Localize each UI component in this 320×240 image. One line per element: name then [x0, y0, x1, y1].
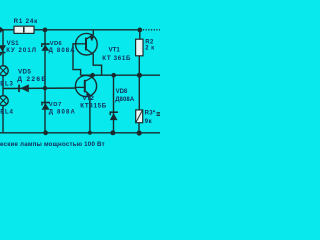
wire R2 bottom lead [138, 56, 140, 75]
svg-text:Д 226Б: Д 226Б [17, 76, 47, 83]
node junction top middle [43, 28, 48, 33]
svg-text:еские лампы мощностью 100 Вт: еские лампы мощностью 100 Вт [0, 141, 105, 148]
resistor R3 [136, 110, 143, 123]
transistor VT1 [76, 33, 98, 55]
svg-text:R1 24к: R1 24к [14, 18, 39, 25]
svg-text:R2: R2 [145, 39, 154, 45]
lamp EL3 [0, 66, 8, 76]
node junction VD5 wire [43, 86, 47, 90]
svg-text:КТ315Б: КТ315Б [80, 103, 107, 110]
svg-text:VS1: VS1 [7, 41, 20, 47]
wire R3 bottom lead [138, 123, 140, 133]
wire middle horizontal bus [81, 74, 160, 76]
node input arrow left [0, 27, 4, 33]
wire R3 top lead [138, 75, 140, 110]
wire left vertical [2, 30, 4, 133]
resistor R2 [136, 39, 143, 56]
svg-text:R3*: R3* [145, 111, 156, 117]
node junction bottom R3 [137, 130, 142, 135]
lamp EL4 [0, 96, 8, 106]
wire VD8 vertical [113, 75, 115, 133]
wire VT1 collector path [93, 54, 101, 75]
zener VD8 [110, 111, 118, 120]
zener VD7 [41, 102, 50, 110]
wire top dotted continuation [143, 29, 160, 31]
svg-text:VT2: VT2 [83, 95, 95, 102]
node junction mid VT2 collector [90, 73, 95, 78]
svg-text:Д 808А: Д 808А [49, 109, 76, 115]
wire VT1 base path [73, 44, 85, 75]
node junction top right [137, 28, 142, 33]
svg-text:2 к: 2 к [145, 46, 154, 52]
svg-text:VT1: VT1 [109, 47, 121, 54]
right edge mark [157, 112, 161, 113]
wire bottom horizontal [0, 132, 160, 134]
resistor R1 [14, 26, 34, 33]
wire VT1 emitter to top [92, 30, 94, 35]
svg-text:VD7: VD7 [49, 102, 62, 108]
thyristor VS1 [0, 45, 6, 58]
node junction mid R2/R3 [137, 73, 142, 78]
svg-text:КУ 201Л: КУ 201Л [6, 48, 37, 54]
svg-text:VD8: VD8 [116, 89, 128, 95]
wire middle vertical (VD6/VD7 branch) [44, 30, 46, 133]
wire R2 top lead [139, 30, 141, 40]
svg-text:КТ 361Б: КТ 361Б [102, 55, 131, 62]
svg-text:VD5: VD5 [18, 69, 31, 76]
node junction bottom VD7 [43, 130, 48, 135]
svg-text:Д 808А: Д 808А [49, 48, 76, 54]
wire top horizontal [0, 29, 140, 31]
svg-text:EL3: EL3 [0, 81, 13, 87]
svg-text:9к: 9к [145, 119, 152, 125]
wire VD5 horizontal to VT2 base [3, 87, 85, 90]
wire VT2 emitter vertical [89, 95, 91, 133]
diode VD5 [18, 84, 29, 92]
svg-text:Д808А: Д808А [115, 97, 135, 103]
transistor VT2 [75, 75, 96, 96]
zener VD6 [41, 43, 50, 51]
node junction mid VD8 [111, 73, 116, 78]
node junction bottom VD8 [110, 130, 115, 135]
svg-text:EL4: EL4 [0, 109, 13, 115]
svg-text:VD6: VD6 [50, 41, 63, 47]
node junction bottom VT2 emitter [88, 131, 92, 135]
